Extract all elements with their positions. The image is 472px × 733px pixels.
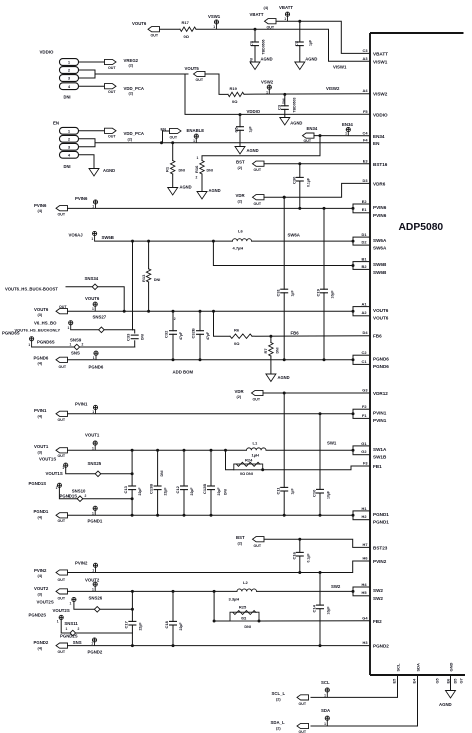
svg-text:PGND6: PGND6: [373, 364, 389, 369]
svg-text:F4: F4: [363, 137, 368, 142]
svg-text:VDDIO: VDDIO: [373, 112, 388, 117]
pin C3 VBATT labels: [363, 48, 389, 57]
pin F4 EN labels: [363, 137, 380, 146]
wire SW6B loop to IC: [213, 241, 353, 265]
connector VDDIO DNI: [40, 50, 79, 100]
svg-text:C2: C2: [362, 350, 368, 355]
capacitor C3 TBD0603 DNI: [276, 94, 296, 117]
net label VDDIO: [247, 109, 261, 114]
net label FB6: [291, 331, 300, 336]
capacitor C2 1uF: [293, 21, 312, 62]
svg-text:VDR6: VDR6: [373, 182, 386, 187]
jumper SNS10 diamond: [68, 488, 87, 501]
svg-text:C31: C31: [276, 288, 281, 296]
svg-text:VOUT1S: VOUT1S: [39, 456, 56, 461]
net label SNS34: [85, 276, 99, 281]
wire FB2 net: [213, 620, 370, 623]
svg-text:SCL: SCL: [395, 663, 400, 672]
svg-text:PVIN2: PVIN2: [75, 560, 88, 565]
wire EN pin1 to VDD_PCA flag: [79, 130, 106, 132]
svg-text:SNS26: SNS26: [89, 596, 103, 601]
svg-text:PVIN2: PVIN2: [373, 559, 387, 564]
svg-text:VDDIO: VDDIO: [247, 109, 261, 114]
net label VISW2: [326, 86, 340, 91]
svg-text:10µF: 10µF: [331, 290, 335, 299]
svg-text:(2): (2): [237, 395, 242, 399]
svg-text:OUT: OUT: [254, 202, 262, 206]
svg-text:E1: E1: [362, 207, 368, 212]
svg-text:1: 1: [70, 342, 72, 346]
svg-text:SNS10: SNS10: [72, 488, 86, 493]
svg-text:OUT: OUT: [196, 78, 204, 82]
wire EN pin4 to AGND: [79, 155, 95, 169]
jumper SNS25 diamond: [88, 461, 102, 476]
svg-text:PVIN6: PVIN6: [34, 203, 47, 208]
svg-text:(4): (4): [38, 362, 43, 366]
svg-text:BST: BST: [236, 535, 245, 540]
resistor R6 0ohm: [230, 327, 252, 346]
svg-text:VOUT6: VOUT6: [132, 21, 147, 26]
op-amp U1 ADP5080 IC body: [370, 33, 465, 675]
svg-text:PGND6: PGND6: [89, 365, 104, 370]
pins A1/A2 VOUT6: [352, 302, 389, 321]
svg-text:R24: R24: [245, 458, 253, 463]
svg-text:GND: GND: [448, 663, 453, 672]
test point PGND6: [71, 350, 98, 359]
svg-text:OUT: OUT: [59, 365, 67, 369]
net flag VDD_PCA lower: [105, 128, 145, 141]
svg-text:H4: H4: [362, 582, 368, 587]
svg-text:VSW2: VSW2: [261, 79, 274, 84]
svg-text:ADD BOM: ADD BOM: [173, 369, 194, 374]
svg-text:C4: C4: [363, 130, 369, 135]
svg-text:EN34: EN34: [307, 126, 318, 131]
svg-text:DNI: DNI: [179, 169, 185, 173]
svg-text:OUT: OUT: [58, 454, 66, 458]
svg-text:FB1: FB1: [373, 464, 382, 469]
svg-text:C10: C10: [312, 489, 317, 497]
pin H6 PVIN2 labels: [363, 556, 387, 565]
svg-text:PVIN6: PVIN6: [75, 196, 88, 201]
svg-text:B1: B1: [362, 257, 368, 262]
wire SCL net: [311, 675, 398, 697]
svg-text:EN: EN: [373, 141, 380, 146]
svg-text:(2): (2): [129, 64, 134, 68]
svg-text:VOUT6: VOUT6: [373, 316, 389, 321]
svg-text:C1: C1: [362, 359, 368, 364]
wire VDDIO pin1 to VREG2 flag: [79, 61, 106, 63]
svg-text:(4): (4): [38, 414, 43, 418]
wire PGND1 net: [68, 514, 354, 516]
svg-text:C13: C13: [123, 485, 128, 493]
svg-text:PGND6S: PGND6S: [2, 330, 20, 335]
wire PGND6 net: [68, 358, 354, 361]
test point VOUT6: [85, 296, 100, 311]
capacitor C13B 22uF DNI: [149, 450, 168, 517]
svg-text:AGND: AGND: [439, 702, 452, 707]
capacitor C32 47uF: [164, 310, 184, 362]
net label SW6B: [102, 235, 114, 240]
svg-text:PGND2: PGND2: [88, 650, 103, 655]
svg-text:1: 1: [92, 569, 94, 573]
wire FB6 net: [252, 335, 370, 338]
svg-text:1: 1: [91, 642, 93, 646]
net flag EN: [160, 126, 181, 144]
ground AGND below R1: [168, 185, 192, 196]
jumper SNS34 diamond: [92, 284, 98, 290]
svg-text:VISW2: VISW2: [326, 86, 340, 91]
svg-text:VOUT5: VOUT5: [185, 66, 200, 71]
net label VOUT2S left: [37, 600, 54, 605]
svg-text:R6: R6: [234, 327, 240, 332]
svg-text:PGND2: PGND2: [373, 644, 389, 649]
svg-text:VISW1: VISW1: [373, 59, 388, 64]
test point PVIN1: [75, 401, 98, 413]
svg-text:SNS34: SNS34: [85, 276, 99, 281]
svg-text:SW6B: SW6B: [102, 235, 114, 240]
wire SW2 net: [257, 590, 354, 592]
svg-text:VOUT1S: VOUT1S: [46, 471, 63, 476]
net label PGND2S left: [29, 613, 47, 618]
svg-text:C12: C12: [175, 485, 180, 493]
svg-text:SW2: SW2: [373, 588, 383, 593]
net label PGND1S: [60, 494, 78, 499]
svg-text:OUT: OUT: [108, 90, 116, 94]
wire PVIN2 net: [68, 561, 371, 574]
svg-text:C33: C33: [126, 333, 131, 341]
svg-text:SW6A: SW6A: [288, 233, 300, 238]
junction C3/VSW2: [283, 93, 286, 96]
svg-text:E6: E6: [445, 678, 450, 684]
ground AGND below R16: [197, 188, 221, 199]
svg-text:PGND6: PGND6: [34, 355, 49, 360]
wire VOUT6_HS_BUCKONLY: [71, 329, 133, 331]
net flag PGND6: [34, 355, 68, 369]
svg-text:22µF: 22µF: [138, 487, 142, 496]
wire VSW2 net: [244, 93, 370, 96]
pins H1/H2 PGND1: [352, 506, 390, 525]
svg-text:VOUT1: VOUT1: [85, 433, 100, 438]
label ADD BOM: [173, 369, 194, 374]
svg-text:H6: H6: [363, 556, 369, 561]
svg-text:SW6B: SW6B: [373, 270, 387, 275]
resistor R1 DNI: [165, 143, 185, 188]
net label VOUT6_HS_BUCKONLY: [15, 327, 61, 332]
wire BST23 net: [264, 538, 370, 548]
capacitor C11 1uF: [276, 393, 295, 517]
ground AGND below C1: [250, 57, 273, 70]
svg-text:H7: H7: [363, 542, 368, 547]
svg-text:0Ω: 0Ω: [232, 99, 238, 104]
svg-text:G1: G1: [361, 441, 367, 446]
svg-text:1µF: 1µF: [291, 488, 295, 495]
svg-text:AGND: AGND: [209, 188, 221, 193]
capacitor C5 1uF: [234, 113, 253, 146]
net flag VREG2: [105, 58, 139, 70]
net label VOUT1S left: [39, 456, 56, 461]
net flag PVIN6: [34, 203, 68, 217]
svg-text:0Ω DNI: 0Ω DNI: [240, 472, 253, 476]
svg-text:C12B: C12B: [202, 484, 207, 494]
svg-text:VOUT1: VOUT1: [34, 444, 49, 449]
test point VOUT2: [85, 577, 100, 591]
svg-text:(2): (2): [276, 726, 281, 730]
svg-text:PGND1: PGND1: [373, 512, 389, 517]
svg-text:F1: F1: [362, 413, 367, 418]
test point PVIN2: [75, 560, 98, 572]
svg-text:D5: D5: [452, 678, 457, 684]
wire PGND2S sense: [61, 620, 132, 634]
svg-text:R13: R13: [141, 274, 146, 282]
svg-text:VOUT6_HS_BUCKONLY: VOUT6_HS_BUCKONLY: [15, 327, 61, 332]
capacitor C31 1uF: [276, 196, 295, 360]
svg-text:1: 1: [91, 237, 93, 241]
svg-text:R1: R1: [165, 166, 170, 172]
svg-text:PGND1: PGND1: [373, 520, 389, 525]
net flag VOUT5: [185, 66, 206, 82]
svg-text:1: 1: [284, 17, 286, 21]
wire VOUT1 net: [68, 449, 247, 452]
wire FB1 net: [263, 466, 370, 470]
test point SCL: [321, 680, 330, 697]
svg-text:OUT: OUT: [108, 66, 116, 70]
svg-text:BST16: BST16: [373, 162, 388, 167]
wire SW6A net: [252, 240, 354, 242]
svg-text:(2): (2): [238, 166, 243, 170]
svg-text:4.7µH: 4.7µH: [233, 246, 244, 251]
svg-text:ADP5080: ADP5080: [399, 222, 444, 233]
test point PGND2S: [57, 615, 64, 623]
svg-text:1: 1: [324, 693, 326, 697]
pins F2/F1 PVIN1: [352, 404, 387, 423]
test point VO6AJ: [69, 231, 97, 241]
svg-text:(2): (2): [276, 698, 281, 702]
svg-text:VO6AJ: VO6AJ: [69, 232, 84, 237]
svg-text:VREG2: VREG2: [124, 58, 139, 63]
svg-text:AGND: AGND: [180, 185, 192, 190]
svg-text:1: 1: [266, 90, 268, 94]
svg-text:1: 1: [92, 511, 94, 515]
wire VOUT6_HS_BUCK-BOOST: [66, 287, 124, 311]
svg-text:PVIN6: PVIN6: [373, 213, 387, 218]
net label VOUT2S under: [53, 608, 70, 613]
svg-text:0.1µF: 0.1µF: [306, 553, 310, 563]
net label PGND1 tp: [88, 519, 103, 524]
svg-text:H2: H2: [362, 514, 368, 519]
svg-text:OUT: OUT: [58, 650, 66, 654]
svg-text:SNS27: SNS27: [93, 315, 107, 320]
svg-text:VDR12: VDR12: [373, 391, 388, 396]
svg-text:OUT: OUT: [254, 544, 262, 548]
wire VDDIO vertical drop: [185, 74, 370, 114]
ground AGND below GND pin: [439, 691, 456, 708]
svg-text:1: 1: [92, 307, 94, 311]
svg-text:AGND: AGND: [278, 375, 290, 380]
svg-text:VDD_PCA: VDD_PCA: [124, 86, 145, 91]
svg-text:OUT: OUT: [170, 135, 178, 139]
svg-text:SDA: SDA: [321, 708, 330, 713]
inductor L2 3.3uH: [229, 580, 257, 601]
svg-text:1µF: 1µF: [249, 126, 253, 133]
svg-text:D3: D3: [363, 178, 369, 183]
test point SDA: [321, 708, 330, 726]
svg-text:TBD0606: TBD0606: [262, 39, 266, 54]
pins C2/C1 PGND6: [352, 350, 390, 369]
svg-text:L1: L1: [253, 441, 258, 446]
svg-text:BST23: BST23: [373, 546, 388, 551]
svg-text:ENABLE: ENABLE: [187, 128, 205, 133]
svg-text:1: 1: [68, 326, 70, 330]
svg-text:2: 2: [174, 317, 176, 321]
inductor L6 4.7uH: [233, 229, 252, 251]
svg-text:TBD0603: TBD0603: [292, 97, 296, 112]
svg-text:2: 2: [196, 176, 198, 180]
svg-text:A2: A2: [362, 310, 368, 315]
svg-text:PVIN1: PVIN1: [34, 408, 47, 413]
net flag BST lower: [236, 535, 264, 548]
svg-text:G5: G5: [434, 677, 439, 683]
net label PGND2S: [60, 634, 78, 639]
svg-text:C18: C18: [164, 620, 169, 628]
svg-text:G3: G3: [362, 388, 368, 393]
net label PGND1S left: [29, 481, 47, 486]
svg-text:OUT: OUT: [151, 33, 159, 37]
net flag PVIN1: [34, 408, 68, 422]
svg-text:C32: C32: [164, 330, 169, 338]
svg-text:SW2: SW2: [331, 584, 341, 589]
svg-text:(4): (4): [264, 6, 269, 10]
ground AGND below EN connector: [89, 168, 115, 176]
pins E2/E1 PVIN6: [352, 199, 387, 218]
svg-text:SW6A: SW6A: [373, 238, 387, 243]
svg-text:C3: C3: [363, 48, 369, 53]
svg-text:(4): (4): [38, 209, 43, 213]
capacitor C12 22uF: [175, 450, 194, 517]
net label VOUT1S under: [46, 471, 63, 476]
wire VDR12 net: [263, 392, 370, 395]
svg-text:VDR: VDR: [235, 389, 245, 394]
net flag VOUT6 top: [132, 21, 160, 37]
svg-text:DNI: DNI: [141, 334, 145, 340]
svg-text:SCL: SCL: [321, 680, 330, 685]
svg-text:VISW1: VISW1: [333, 64, 347, 69]
U1 part name ADP5080: [399, 222, 444, 233]
junction C1/VSW1: [254, 28, 257, 31]
svg-text:1: 1: [92, 446, 94, 450]
wire BST16 net: [264, 162, 370, 165]
wire VSW1 net: [196, 29, 370, 61]
svg-text:C2: C2: [293, 40, 298, 46]
net flag SDA_L: [271, 720, 309, 733]
wire SW1 net: [266, 449, 353, 451]
svg-text:B2: B2: [362, 264, 368, 269]
svg-text:VOUT2S: VOUT2S: [53, 608, 70, 613]
resistor R17: [180, 20, 196, 39]
svg-text:1: 1: [70, 601, 72, 605]
svg-text:EN34: EN34: [342, 122, 353, 127]
svg-text:PVIN6: PVIN6: [373, 205, 387, 210]
svg-text:SNS: SNS: [71, 350, 80, 355]
wire FB6 drop from VOUT6: [214, 311, 231, 336]
svg-text:PGND1: PGND1: [34, 509, 49, 514]
wire PGND1S sense: [59, 487, 133, 500]
svg-text:PGND6: PGND6: [373, 357, 389, 362]
svg-text:1: 1: [92, 410, 94, 414]
wire PVIN6 net: [68, 207, 354, 210]
svg-text:A1: A1: [362, 302, 368, 307]
svg-text:SNS9: SNS9: [70, 338, 82, 343]
svg-text:SW6A: SW6A: [373, 246, 387, 251]
svg-text:H5: H5: [362, 590, 368, 595]
svg-text:H3: H3: [363, 640, 369, 645]
svg-text:SW6B: SW6B: [373, 262, 387, 267]
svg-text:VOUT6: VOUT6: [85, 296, 100, 301]
svg-text:1µH: 1µH: [252, 452, 260, 457]
svg-text:AGND: AGND: [305, 57, 317, 62]
svg-text:(4): (4): [38, 574, 43, 578]
svg-text:1: 1: [197, 156, 199, 160]
wire EN34 to R16: [202, 136, 320, 161]
test point PGND1: [92, 506, 97, 515]
test point PGND2: [73, 638, 97, 646]
net flag EN34: [303, 126, 318, 143]
svg-text:F2: F2: [362, 404, 367, 409]
svg-text:10µF: 10µF: [327, 490, 331, 499]
svg-text:0Ω: 0Ω: [234, 341, 240, 346]
capacitor C1 TBD0606 DNI: [249, 29, 266, 64]
net label SNS27: [93, 315, 107, 320]
svg-text:OUT: OUT: [299, 702, 307, 706]
svg-text:PGND1: PGND1: [88, 519, 103, 524]
test point V6_HS_BO: [34, 320, 73, 329]
svg-text:PGND6S: PGND6S: [37, 339, 55, 344]
inductor L1 1uH: [247, 441, 267, 458]
pins G1/G2 SW1A: [352, 441, 387, 460]
svg-text:22µF: 22µF: [217, 487, 221, 496]
svg-text:PVIN1: PVIN1: [373, 411, 387, 416]
wire VOUT2 net: [68, 590, 238, 593]
test point PVIN6: [75, 196, 98, 208]
wire VBATT net: [276, 21, 370, 53]
svg-text:G2: G2: [361, 449, 367, 454]
svg-text:OUT: OUT: [267, 25, 275, 29]
svg-text:DNI: DNI: [207, 169, 213, 173]
capacitor C10 10uF: [312, 414, 331, 517]
test point VBATT: [279, 5, 293, 21]
svg-text:22µF: 22µF: [138, 622, 142, 631]
svg-text:SNS25: SNS25: [88, 461, 102, 466]
svg-text:1: 1: [345, 132, 347, 136]
svg-text:AGND: AGND: [261, 57, 273, 62]
svg-text:(2): (2): [238, 541, 243, 545]
pins G5/E6/D5/G7 GND: [434, 663, 463, 684]
svg-text:(2): (2): [238, 199, 243, 203]
pin E3 BST16 labels: [363, 158, 388, 167]
svg-text:FB6: FB6: [291, 331, 300, 336]
svg-text:DNI: DNI: [244, 625, 251, 629]
test point VSW1: [208, 14, 221, 29]
svg-text:1: 1: [92, 204, 94, 208]
svg-text:0.1µF: 0.1µF: [306, 177, 310, 187]
svg-text:VOUT6_HS_BUCK-BOOST: VOUT6_HS_BUCK-BOOST: [5, 287, 58, 292]
svg-text:SCL_L: SCL_L: [272, 691, 286, 696]
svg-text:1µF: 1µF: [308, 39, 312, 46]
svg-text:1: 1: [213, 25, 215, 29]
wire VOUT6 net: [68, 310, 354, 313]
net flag PGND1: [34, 509, 68, 523]
net label SW1: [327, 440, 337, 445]
pin C4 EN34 labels: [363, 130, 385, 139]
